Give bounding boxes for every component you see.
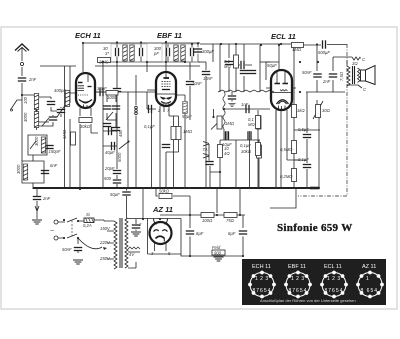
svg-text:1kΩ: 1kΩ bbox=[297, 108, 305, 113]
svg-text:ECH 11: ECH 11 bbox=[252, 264, 271, 270]
svg-text:87654: 87654 bbox=[253, 288, 272, 294]
svg-text:EBF 11: EBF 11 bbox=[288, 264, 306, 270]
svg-text:30kΩ: 30kΩ bbox=[241, 149, 252, 154]
svg-text:1MΩ: 1MΩ bbox=[225, 121, 235, 126]
svg-text:123: 123 bbox=[255, 276, 271, 282]
svg-text:ECL 11: ECL 11 bbox=[324, 264, 342, 270]
svg-text:123: 123 bbox=[327, 276, 343, 282]
svg-text:8µF: 8µF bbox=[196, 231, 204, 236]
svg-text:0,1µF: 0,1µF bbox=[144, 124, 155, 129]
svg-text:123: 123 bbox=[291, 276, 307, 282]
svg-text:7,5Ω: 7,5Ω bbox=[339, 71, 344, 81]
svg-text:1nF: 1nF bbox=[241, 102, 249, 107]
svg-text:0,1µF: 0,1µF bbox=[240, 143, 251, 148]
svg-text:50nF: 50nF bbox=[62, 247, 72, 252]
svg-text:100: 100 bbox=[23, 96, 28, 104]
svg-text:220V: 220V bbox=[99, 240, 111, 245]
svg-text:MΩ: MΩ bbox=[248, 122, 255, 127]
svg-text:Anschlußplan der Röhren von de: Anschlußplan der Röhren von der Untersei… bbox=[260, 298, 356, 303]
svg-text:10nF: 10nF bbox=[192, 81, 202, 86]
svg-text:30Ω: 30Ω bbox=[322, 108, 331, 113]
svg-text:50kΩ: 50kΩ bbox=[159, 189, 170, 194]
svg-text:50µF: 50µF bbox=[182, 114, 192, 119]
svg-text:AZ 11: AZ 11 bbox=[152, 205, 173, 214]
svg-text:6nF: 6nF bbox=[50, 163, 58, 168]
svg-text:ECH 11: ECH 11 bbox=[75, 31, 101, 40]
svg-text:40µF: 40µF bbox=[105, 150, 115, 155]
svg-text:1MΩ: 1MΩ bbox=[183, 129, 193, 134]
svg-text:3Ω: 3Ω bbox=[352, 61, 358, 66]
svg-text:1MΩ: 1MΩ bbox=[62, 129, 67, 139]
svg-text:8µF: 8µF bbox=[228, 231, 236, 236]
svg-text:2nF: 2nF bbox=[42, 196, 51, 201]
svg-text:Sinfonie 659 W: Sinfonie 659 W bbox=[277, 222, 353, 234]
svg-text:AZ 11: AZ 11 bbox=[362, 264, 376, 270]
svg-text:2nF: 2nF bbox=[28, 77, 37, 82]
svg-text:20pF: 20pF bbox=[104, 166, 115, 171]
svg-text:0,5µF: 0,5µF bbox=[298, 127, 309, 132]
svg-text:3*: 3* bbox=[105, 51, 109, 56]
svg-text:300µF: 300µF bbox=[202, 49, 214, 54]
svg-text:4Ω: 4Ω bbox=[224, 151, 230, 156]
svg-text:250V: 250V bbox=[99, 256, 111, 261]
svg-text:87654: 87654 bbox=[325, 288, 344, 294]
svg-text:87654: 87654 bbox=[289, 288, 308, 294]
svg-text:5000: 5000 bbox=[117, 152, 122, 162]
svg-text:0,2MΩ: 0,2MΩ bbox=[280, 174, 293, 179]
svg-text:30µF: 30µF bbox=[97, 86, 107, 91]
svg-text:1MΩ: 1MΩ bbox=[292, 47, 302, 52]
svg-text:0,5MΩ: 0,5MΩ bbox=[280, 147, 293, 152]
svg-text:3000: 3000 bbox=[23, 112, 28, 122]
svg-text:Feld: Feld bbox=[212, 245, 221, 250]
svg-text:TA: TA bbox=[203, 147, 208, 152]
svg-text:ECL 11: ECL 11 bbox=[271, 32, 296, 41]
svg-text:30kΩ: 30kΩ bbox=[80, 124, 91, 129]
svg-text:100Ω: 100Ω bbox=[202, 218, 213, 223]
svg-text:50nF: 50nF bbox=[302, 70, 312, 75]
svg-text:8 654: 8 654 bbox=[361, 288, 379, 294]
svg-text:150V: 150V bbox=[100, 226, 111, 231]
svg-text:3000: 3000 bbox=[34, 136, 39, 146]
svg-text:1000: 1000 bbox=[107, 95, 117, 100]
svg-text:50µF: 50µF bbox=[267, 63, 277, 68]
svg-text:0,1µF: 0,1µF bbox=[298, 157, 309, 162]
svg-text:3000: 3000 bbox=[16, 164, 21, 174]
svg-text:480: 480 bbox=[118, 129, 123, 137]
svg-text:3040: 3040 bbox=[99, 60, 109, 65]
svg-text:MΩ: MΩ bbox=[224, 64, 231, 69]
svg-text:900: 900 bbox=[214, 251, 222, 256]
svg-text:400pF: 400pF bbox=[54, 88, 66, 93]
svg-text:2nF: 2nF bbox=[322, 79, 331, 84]
svg-text:EBF 11: EBF 11 bbox=[157, 31, 182, 40]
svg-text:10nF: 10nF bbox=[203, 76, 213, 81]
svg-text:500: 500 bbox=[104, 176, 112, 181]
svg-text:150pF: 150pF bbox=[49, 149, 61, 154]
svg-text:75Ω: 75Ω bbox=[226, 218, 235, 223]
svg-text:pF: pF bbox=[153, 51, 159, 56]
svg-text:~: ~ bbox=[50, 228, 54, 235]
svg-text:1: 1 bbox=[366, 276, 371, 282]
svg-text:500µF: 500µF bbox=[318, 50, 330, 55]
svg-text:0,2A: 0,2A bbox=[83, 223, 92, 228]
svg-text:50µF: 50µF bbox=[110, 192, 120, 197]
svg-text:10µF: 10µF bbox=[222, 142, 232, 147]
